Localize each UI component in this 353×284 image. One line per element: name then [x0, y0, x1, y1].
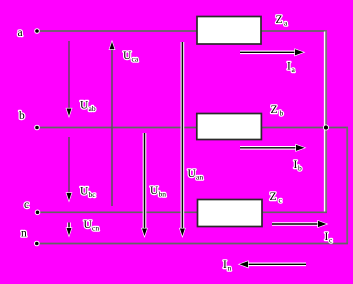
svg-text:c: c — [24, 199, 29, 211]
wire phase b: terminal to Z_b — [36, 127, 198, 129]
wire right bus vertical (star point) — [324, 32, 326, 213]
svg-text:I: I — [294, 159, 298, 171]
current arrow I_a — [240, 49, 304, 74]
wire phase b: Z_b to far right vertical — [260, 127, 348, 129]
svg-text:an: an — [196, 173, 203, 182]
current arrow I_b — [240, 145, 305, 173]
voltage arrow U_bn — [142, 133, 166, 236]
svg-text:Z: Z — [271, 104, 278, 116]
wire phase a: terminal to Z_a — [36, 30, 198, 32]
svg-text:Z: Z — [276, 14, 283, 26]
svg-text:a: a — [18, 27, 23, 39]
wire phase a: Z_a to right bus — [260, 30, 327, 32]
svg-text:b: b — [298, 164, 302, 173]
svg-text:I: I — [223, 259, 227, 271]
current arrow I_n (points left) — [223, 259, 306, 273]
current arrow I_c — [272, 221, 333, 245]
svg-text:Z: Z — [270, 191, 277, 203]
node star-point junction — [323, 125, 328, 130]
voltage arrow U_ab — [67, 41, 96, 116]
svg-text:cn: cn — [92, 224, 99, 233]
svg-text:bc: bc — [89, 190, 97, 199]
wire neutral n — [36, 243, 348, 245]
voltage arrow U_an — [180, 42, 203, 236]
terminal b — [19, 110, 39, 130]
svg-text:n: n — [228, 264, 232, 273]
voltage arrow U_cn — [67, 219, 100, 236]
impedance Z_c box — [198, 191, 283, 227]
svg-text:n: n — [21, 228, 27, 240]
wire far right vertical to neutral — [346, 128, 348, 244]
svg-text:b: b — [280, 109, 284, 118]
svg-text:ca: ca — [132, 55, 139, 64]
impedance Z_b box — [197, 104, 284, 140]
svg-text:ab: ab — [89, 104, 96, 113]
terminal c — [24, 199, 40, 215]
wire phase c: terminal to Z_c — [36, 211, 198, 213]
terminal n — [21, 228, 39, 246]
terminal a — [18, 27, 40, 39]
svg-text:bn: bn — [159, 190, 167, 199]
svg-text:I: I — [287, 61, 291, 73]
impedance Z_a box — [197, 14, 288, 44]
svg-text:b: b — [19, 110, 25, 122]
voltage arrow U_ca (points up) — [110, 42, 139, 206]
wire phase c: Z_c to right bus — [260, 211, 327, 213]
voltage arrow U_bc — [67, 137, 97, 201]
svg-text:I: I — [325, 231, 329, 243]
